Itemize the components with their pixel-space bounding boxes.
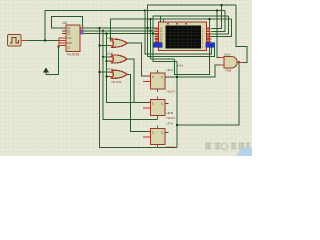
wire gate3 lower input feed bbox=[107, 76, 114, 78]
wire FF1 Q row to gate U5 lower input bbox=[165, 65, 220, 77]
svg-text:Q: Q bbox=[161, 102, 163, 106]
flip-flop U6:B bbox=[143, 96, 176, 120]
wire U-link U4 pin2 to QA bbox=[51, 17, 82, 29]
and-gate U5:A bbox=[220, 53, 244, 73]
svg-text:ENP: ENP bbox=[67, 42, 72, 45]
svg-text:74LS74: 74LS74 bbox=[166, 116, 176, 120]
clock source CLK bbox=[8, 35, 28, 47]
wire bus L3 riser v_d bbox=[153, 16, 228, 62]
svg-text:U1:C: U1:C bbox=[107, 67, 113, 71]
wire QC row bbox=[82, 32, 159, 34]
wire gate1 out to FF1 D bbox=[127, 43, 147, 76]
svg-text:Q: Q bbox=[161, 75, 163, 79]
junction U4 clock bus bbox=[57, 45, 59, 47]
matrix right pins bbox=[206, 29, 211, 42]
wire gate3 upper input feed bbox=[100, 71, 114, 73]
junction chain mid bbox=[176, 124, 178, 126]
or-gate G1 bbox=[107, 36, 127, 47]
junction L2 v_a bbox=[144, 9, 146, 11]
svg-text:LD: LD bbox=[67, 47, 70, 50]
watermark bbox=[206, 143, 251, 150]
wire gate3 out to FF3 D bbox=[127, 74, 147, 131]
wire under-matrix row3 to L4 riser bbox=[174, 19, 209, 74]
U4 pin texts bbox=[67, 27, 72, 50]
wire v_d drop at 176.9 bbox=[176, 62, 178, 148]
junction V3-gate2 bbox=[105, 60, 107, 62]
svg-text:U1:B: U1:B bbox=[107, 52, 113, 56]
junction QC-V3 bbox=[105, 32, 107, 34]
matrix left pins bbox=[155, 29, 159, 42]
wire V2 column bbox=[103, 31, 157, 120]
wire bus L4 from gate1 input riser bbox=[110, 19, 231, 41]
wire v_c riser bbox=[150, 19, 152, 59]
svg-text:74LS74: 74LS74 bbox=[166, 145, 176, 149]
wire right-matrix corner 2 bbox=[212, 11, 225, 32]
dot matrix display bbox=[153, 16, 214, 51]
matrix left pin number texts bbox=[160, 28, 164, 49]
junction L4 v_c bbox=[149, 18, 151, 20]
wire gate U5 output loop bbox=[236, 5, 247, 62]
junction V3-gate3 bbox=[105, 75, 107, 77]
wire right-matrix corner 3 bbox=[212, 16, 229, 34]
svg-text:U7:A: U7:A bbox=[167, 122, 173, 126]
wire gate2 lower input feed bbox=[107, 60, 114, 62]
junction QB-V2 bbox=[102, 30, 104, 32]
junction QC row left-matrix bbox=[152, 32, 154, 34]
wire under-matrix row2 bbox=[148, 47, 215, 57]
svg-text:U5:A: U5:A bbox=[224, 53, 230, 57]
svg-text:U4:A: U4:A bbox=[178, 64, 184, 68]
junction L4 right riser bbox=[208, 18, 210, 20]
wire QB row bbox=[82, 30, 159, 32]
wire QA row bbox=[82, 27, 159, 29]
junction QA-V1 bbox=[98, 27, 100, 29]
power terminal (up arrow) bbox=[43, 67, 49, 74]
matrix right pin number texts bbox=[202, 29, 204, 49]
svg-text:U1:A: U1:A bbox=[107, 36, 113, 40]
wire U4 ground drop bbox=[46, 47, 59, 75]
junction U-link QA bbox=[82, 27, 84, 29]
junction clock node bbox=[44, 39, 46, 41]
svg-text:D: D bbox=[152, 102, 154, 106]
or-gate G3 bbox=[107, 67, 127, 84]
wire gate2 out to FF2 D bbox=[127, 59, 147, 103]
wire V3 column bbox=[107, 33, 147, 102]
wire right-matrix corner 1 bbox=[212, 5, 222, 29]
junction V2-gate2 bbox=[102, 56, 104, 58]
svg-text:U6:A: U6:A bbox=[167, 68, 173, 72]
U4 output state squares bbox=[81, 27, 84, 29]
U4 clock pin bus (red) bbox=[59, 38, 66, 47]
junction QB row left-matrix bbox=[149, 30, 151, 32]
svg-text:7408: 7408 bbox=[225, 69, 232, 73]
svg-text:U4: U4 bbox=[63, 21, 67, 25]
svg-text:Q: Q bbox=[161, 131, 163, 135]
svg-text:74LS74: 74LS74 bbox=[166, 90, 176, 94]
or-gate G2 bbox=[107, 52, 127, 63]
svg-text:D: D bbox=[152, 131, 154, 135]
matrix top pin marks bbox=[167, 23, 187, 25]
wire under-matrix row3 bbox=[151, 58, 175, 60]
wire right-matrix corner 4 bbox=[212, 19, 232, 36]
flip-flop U7:A bbox=[143, 122, 176, 150]
wire gate U5 output to FF3 net bbox=[177, 62, 239, 125]
junction FF1 Q chain bbox=[176, 76, 178, 78]
svg-text:CLK: CLK bbox=[67, 37, 72, 40]
counter U4 74LS163 bbox=[59, 21, 83, 56]
svg-text:D: D bbox=[152, 75, 154, 79]
wire clock to U4 bbox=[27, 40, 59, 42]
matrix top entry wires bbox=[160, 16, 162, 22]
wire left-matrix v_a bbox=[145, 11, 212, 55]
wire V1 column bbox=[100, 28, 177, 147]
matrix left blue state bar bbox=[153, 43, 162, 48]
svg-text:U6:B: U6:B bbox=[167, 111, 173, 115]
wire bus L2 riser bbox=[45, 11, 225, 41]
wire bus L1 bbox=[148, 5, 237, 56]
junction gate U5 output bbox=[238, 61, 240, 63]
wire gate1 lower input feed bbox=[100, 45, 114, 47]
wire gate2 upper input feed bbox=[103, 56, 113, 58]
wire gate U5 upper input riser bbox=[217, 11, 220, 58]
watermark blue circle bbox=[236, 147, 261, 172]
junction QA row left-matrix bbox=[146, 27, 148, 29]
junction L1 corner riser bbox=[220, 4, 222, 6]
matrix right blue state bar bbox=[206, 43, 215, 48]
svg-text:74LS32: 74LS32 bbox=[111, 80, 122, 84]
junction V1-gate3 bbox=[98, 71, 100, 73]
svg-text:74LS163: 74LS163 bbox=[67, 53, 80, 57]
junction V1-gate1 bbox=[98, 44, 100, 46]
flip-flop U6:A bbox=[143, 68, 176, 94]
junction L2 gate U5 riser bbox=[216, 9, 218, 11]
